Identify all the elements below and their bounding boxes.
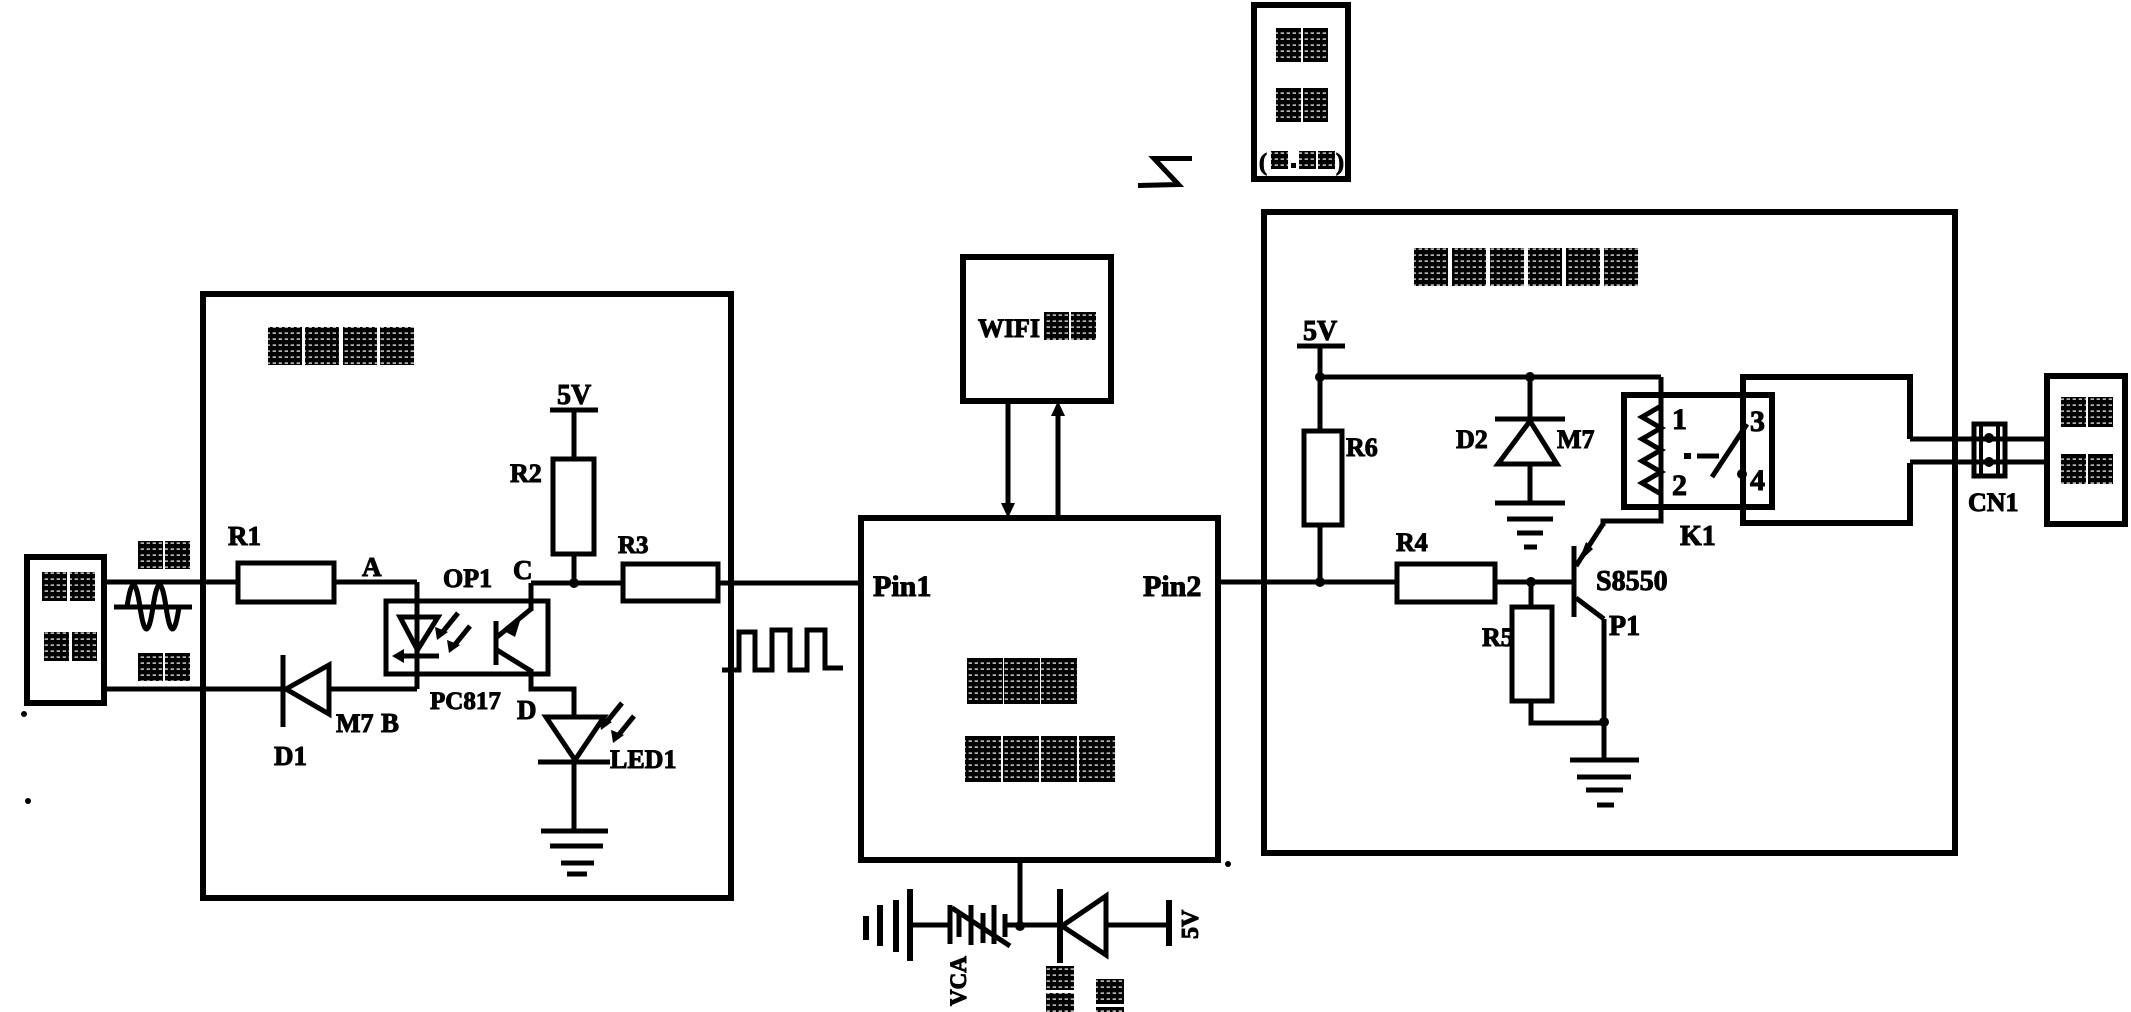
phototransistor inside OP1 bbox=[496, 609, 531, 671]
controlled device box (right) 被控设备 bbox=[2047, 376, 2125, 524]
svg-text:M7: M7 bbox=[336, 709, 374, 738]
svg-text:5V: 5V bbox=[1178, 909, 1204, 939]
wire R3 to MCU Pin1 bbox=[718, 581, 861, 586]
svg-text:OP1: OP1 bbox=[443, 564, 492, 593]
resistor R2 bbox=[510, 459, 594, 554]
junction 5V/D2 bbox=[1525, 372, 1535, 382]
wireless link zigzag symbol bbox=[1138, 159, 1192, 186]
svg-text:R4: R4 bbox=[1396, 528, 1428, 557]
rotated CJK label (battery type) col1 bbox=[1046, 966, 1074, 1012]
diode D2 zener bbox=[1456, 377, 1595, 503]
transistor Q1 S8550 P1 bbox=[1574, 524, 1668, 642]
svg-text:LED1: LED1 bbox=[610, 745, 676, 774]
wire MCU bottom to battery rail bbox=[1018, 860, 1023, 926]
controlled device box (left) 被控设备 bbox=[27, 557, 104, 703]
wire emitter to relay coil bbox=[1603, 497, 1661, 526]
svg-text:R2: R2 bbox=[510, 459, 542, 488]
svg-text:C: C bbox=[513, 555, 533, 585]
light arrows of OP1 LED bbox=[435, 613, 470, 653]
adjustable cell element bbox=[950, 905, 1062, 946]
diode D1 bbox=[274, 655, 417, 771]
resistor R5 bbox=[1482, 582, 1604, 723]
5V supply (detection) bbox=[550, 380, 598, 459]
resistor R6 bbox=[1304, 377, 1378, 582]
relay switch contact bbox=[1684, 424, 1747, 477]
junction R4/R5 bbox=[1526, 577, 1536, 587]
junction R6/main wire bbox=[1315, 577, 1325, 587]
stray dot near MCU corner bbox=[1225, 861, 1231, 867]
wire collector to node C bbox=[529, 583, 534, 611]
svg-text:A: A bbox=[362, 552, 382, 582]
svg-text:K1: K1 bbox=[1680, 521, 1716, 552]
wire Pin2 to power-on circuit bbox=[1218, 580, 1320, 585]
svg-text:M7: M7 bbox=[1557, 425, 1595, 454]
5V supply (power-on) bbox=[1297, 316, 1345, 377]
svg-text:R3: R3 bbox=[618, 532, 649, 559]
resistor R3 bbox=[618, 532, 718, 601]
svg-text:B: B bbox=[381, 708, 399, 738]
resistor R4 bbox=[1396, 528, 1495, 602]
rotated CJK label (battery type) col2 bbox=[1096, 979, 1124, 1012]
svg-text:CN1: CN1 bbox=[1968, 488, 2019, 517]
junction collector/R5 bbox=[1599, 717, 1609, 727]
ground (under transistor) bbox=[1570, 760, 1639, 805]
wire live: device to R1 bbox=[104, 580, 238, 585]
svg-text:Pin2: Pin2 bbox=[1143, 570, 1201, 603]
battery VCA bbox=[866, 889, 950, 961]
wire R2 to node C bbox=[572, 554, 577, 583]
diode (bottom, at MCU supply) bbox=[1060, 889, 1169, 963]
MCU box 单片机控制电路 bbox=[861, 518, 1218, 860]
svg-text:D1: D1 bbox=[274, 741, 307, 771]
wire R4 to base bbox=[1495, 580, 1574, 585]
arrow MCU to WIFI bbox=[1051, 401, 1065, 518]
title 开机控制电路 bbox=[1414, 248, 1638, 286]
svg-text:5V: 5V bbox=[1303, 316, 1337, 347]
junction at battery rail bbox=[1015, 921, 1025, 931]
relay coil bbox=[1642, 377, 1661, 500]
5V rail wire bbox=[1320, 375, 1661, 380]
ground (under D2) bbox=[1495, 503, 1565, 547]
svg-text:WIFI: WIFI bbox=[978, 314, 1040, 343]
power-on control circuit box 开机控制电路 bbox=[1264, 212, 1955, 853]
svg-text:): ) bbox=[1336, 150, 1344, 176]
svg-text:D: D bbox=[517, 695, 537, 725]
LED inside OP1 bbox=[392, 617, 439, 689]
wire collector down bbox=[1602, 619, 1607, 760]
svg-text:R1: R1 bbox=[228, 521, 261, 551]
detection circuit box 检测电路 bbox=[203, 294, 731, 898]
svg-text:3: 3 bbox=[1750, 405, 1765, 438]
svg-text:PC817: PC817 bbox=[430, 688, 501, 715]
resistor R1 bbox=[228, 521, 334, 602]
square wave symbol bbox=[722, 630, 843, 670]
wire emitter to node D bbox=[531, 669, 574, 717]
stray ink dots left margin bbox=[21, 711, 27, 717]
svg-text:Pin1: Pin1 bbox=[873, 570, 931, 603]
svg-text:4: 4 bbox=[1750, 464, 1765, 497]
light arrows of LED1 bbox=[599, 703, 634, 743]
svg-text:R5: R5 bbox=[1482, 623, 1514, 652]
svg-text:R6: R6 bbox=[1346, 433, 1378, 462]
svg-text:1: 1 bbox=[1672, 403, 1687, 436]
connector CN1 bbox=[1968, 424, 2019, 517]
svg-text:VCA: VCA bbox=[946, 956, 971, 1006]
LED1 bbox=[538, 717, 676, 831]
wire load to controlled device bottom (through CN1) bbox=[1910, 460, 2047, 465]
svg-text:5V: 5V bbox=[557, 380, 591, 411]
relay K1 box bbox=[1624, 395, 1772, 552]
5V terminal (rotated) bbox=[1169, 900, 1204, 946]
svg-text:2: 2 bbox=[1672, 469, 1687, 502]
label 火线 (live wire) bbox=[138, 541, 190, 569]
wire to R4 bbox=[1320, 580, 1397, 585]
WIFI module box WIFI模块 bbox=[963, 257, 1111, 401]
ground (under LED1) bbox=[541, 831, 608, 874]
svg-text:(: ( bbox=[1259, 150, 1267, 176]
wire node A bbox=[334, 580, 417, 585]
junction 5V/R6 bbox=[1315, 372, 1325, 382]
AC sine symbol bbox=[114, 585, 192, 629]
relay pin 4 junction dot bbox=[1737, 469, 1747, 479]
wire neutral: device to D1 bbox=[104, 687, 283, 692]
switched load box bbox=[1743, 377, 1910, 523]
wire node C bbox=[531, 581, 623, 586]
optocoupler OP1 box bbox=[386, 564, 548, 715]
title 检测电路 bbox=[268, 327, 414, 365]
svg-text:D2: D2 bbox=[1456, 425, 1488, 454]
wire load to controlled device top (through CN1) bbox=[1910, 437, 2047, 442]
wire into opto LED anode bbox=[415, 582, 420, 656]
svg-text:P1: P1 bbox=[1609, 611, 1640, 642]
label 零线 (neutral wire) bbox=[138, 653, 190, 681]
svg-text:S8550: S8550 bbox=[1596, 566, 1668, 597]
arrow WIFI to MCU bbox=[1001, 401, 1015, 518]
smart terminal box 智能终端(如手机) bbox=[1254, 5, 1348, 179]
